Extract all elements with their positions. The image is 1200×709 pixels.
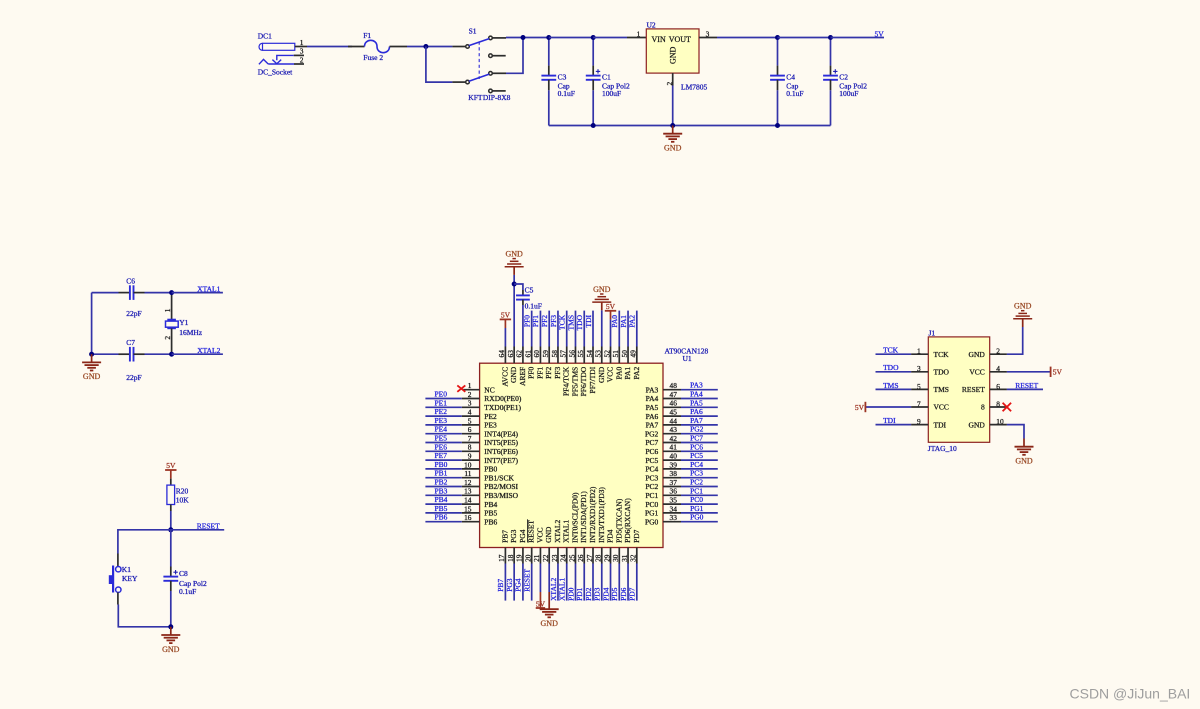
svg-text:5V: 5V (606, 302, 616, 311)
svg-text:TDO: TDO (934, 368, 950, 377)
J1 pin 6 RESET (990, 388, 1007, 390)
svg-text:1: 1 (468, 381, 472, 390)
power port 5V at J1 pin 7 (865, 406, 911, 408)
U1 pin 41 PC6 (663, 450, 681, 452)
U1 pin 18 PG3 (513, 548, 515, 564)
wire R20 to reset node (170, 511, 172, 530)
U1 pin 52 VCC (610, 347, 612, 364)
wire S1 row3 up to rail (492, 72, 506, 74)
switch K1 KEY (116, 567, 121, 572)
node switch output (521, 35, 526, 40)
svg-text:41: 41 (670, 443, 678, 452)
svg-text:XTAL1: XTAL1 (562, 520, 571, 543)
svg-text:6: 6 (468, 425, 472, 434)
wire pin 17 (504, 564, 506, 601)
svg-text:GND: GND (541, 619, 559, 628)
U1 pin 13 PB3/MISO (462, 494, 480, 496)
svg-text:PG4: PG4 (514, 578, 523, 592)
U1 pin 12 PB2/MOSI (462, 486, 480, 488)
svg-text:24: 24 (559, 554, 568, 562)
svg-text:PE2: PE2 (484, 412, 497, 421)
svg-text:INT5(PE5): INT5(PE5) (484, 438, 518, 447)
svg-text:CSDN @JiJun_BAI: CSDN @JiJun_BAI (1070, 685, 1191, 701)
svg-text:PA0: PA0 (614, 367, 623, 380)
wire TCK (876, 353, 912, 355)
svg-text:28: 28 (594, 554, 603, 562)
U1 pin 53 GND (601, 347, 603, 364)
U1 pin 16 PB6 (462, 521, 480, 523)
svg-text:C7: C7 (126, 338, 135, 347)
svg-text:PC2: PC2 (645, 482, 658, 491)
svg-text:8: 8 (996, 399, 1000, 408)
MCU U1 AT90CAN128 body (480, 363, 663, 547)
svg-text:64: 64 (497, 350, 506, 358)
svg-text:57: 57 (559, 350, 568, 358)
capacitor C4 (777, 38, 779, 66)
svg-text:PE1: PE1 (435, 398, 448, 407)
svg-text:PF2: PF2 (544, 367, 553, 379)
wire pin 50 (627, 311, 629, 347)
svg-text:DC_Socket: DC_Socket (258, 68, 293, 77)
U1 pin 51 PA0 (618, 347, 620, 364)
U1 pin 44 PA7 (663, 424, 681, 426)
J1 pin 2 GND (990, 353, 1007, 355)
J1 pin 7 VCC (911, 406, 928, 408)
svg-text:PB4: PB4 (435, 495, 448, 504)
wire pin 60 (539, 311, 541, 347)
svg-text:U2: U2 (647, 20, 656, 29)
svg-text:C2: C2 (839, 73, 848, 82)
svg-text:62: 62 (515, 350, 524, 358)
svg-text:PB5: PB5 (484, 509, 497, 518)
U1 pin 32 PD7 (636, 548, 638, 564)
wire pin 57 (566, 311, 568, 347)
svg-text:42: 42 (670, 434, 678, 443)
U1 pin 49 PA2 (636, 347, 638, 364)
svg-text:XTAL2: XTAL2 (549, 578, 558, 601)
U1 pin 19 PG4 (522, 548, 524, 564)
svg-text:PF0: PF0 (522, 315, 531, 327)
svg-text:INT0/SCL(PD0): INT0/SCL(PD0) (570, 492, 579, 543)
svg-text:9: 9 (468, 452, 472, 461)
svg-text:VCC: VCC (969, 368, 984, 377)
svg-text:PC1: PC1 (645, 491, 658, 500)
svg-text:3: 3 (706, 29, 710, 38)
svg-text:INT6(PE6): INT6(PE6) (484, 447, 518, 456)
svg-text:C4: C4 (786, 73, 795, 82)
svg-text:GND: GND (509, 366, 518, 383)
svg-text:18: 18 (506, 554, 515, 562)
svg-text:3: 3 (468, 399, 472, 408)
svg-text:C8: C8 (179, 569, 188, 578)
svg-text:GND: GND (505, 250, 523, 259)
S1 lever lower (469, 74, 489, 81)
svg-text:19: 19 (515, 554, 524, 562)
wire rail C4-C2 (778, 37, 831, 39)
svg-text:AREF: AREF (518, 367, 527, 386)
svg-text:PD6: PD6 (619, 587, 628, 601)
svg-text:PF3: PF3 (549, 315, 558, 327)
svg-text:PG3: PG3 (509, 529, 518, 543)
svg-text:PC3: PC3 (690, 469, 703, 478)
svg-text:21: 21 (532, 554, 541, 562)
ground reset (170, 627, 172, 635)
svg-text:XTAL1: XTAL1 (558, 578, 567, 601)
svg-text:5V: 5V (166, 461, 176, 470)
svg-text:PC7: PC7 (690, 434, 703, 443)
svg-text:PF0: PF0 (527, 367, 536, 379)
U1 pin 40 PC5 (663, 459, 681, 461)
S1 throw contact row3 (489, 72, 493, 76)
svg-text:35: 35 (670, 496, 678, 505)
svg-text:50: 50 (620, 350, 629, 358)
svg-text:PB7: PB7 (496, 579, 505, 592)
wire pin 23 (557, 564, 559, 601)
svg-text:PF7/TDI: PF7/TDI (588, 366, 597, 393)
svg-text:100uF: 100uF (602, 89, 621, 98)
capacitor C8 polarized (170, 530, 172, 567)
svg-text:PC6: PC6 (645, 447, 658, 456)
U1 pin 14 PB4 (462, 503, 480, 505)
svg-text:PB1/SCK: PB1/SCK (484, 473, 514, 482)
svg-text:PG2: PG2 (690, 425, 704, 434)
svg-text:10K: 10K (176, 496, 190, 505)
DC1 pin 1 (295, 46, 307, 48)
svg-text:54: 54 (585, 350, 594, 358)
node reset (168, 527, 173, 532)
svg-text:RESET: RESET (522, 568, 531, 591)
svg-text:TDO: TDO (883, 363, 899, 372)
node at switch input (423, 44, 428, 49)
capacitor C7 (92, 353, 119, 355)
left rail wire (91, 293, 93, 355)
wire pin 58 (557, 311, 559, 347)
svg-text:NC: NC (484, 385, 494, 394)
svg-text:PC5: PC5 (690, 451, 703, 460)
wire pin 20 (531, 564, 533, 601)
power port 5V at U1 pin 21 VCC bottom (539, 564, 541, 593)
wire key bottom (117, 592, 119, 604)
svg-text:XTAL2: XTAL2 (197, 346, 220, 355)
svg-text:25: 25 (567, 554, 576, 562)
svg-text:5V: 5V (855, 403, 865, 412)
wire J1 pin6 RESET (1007, 388, 1043, 390)
J1 pin 5 TMS (911, 388, 928, 390)
svg-text:PB6: PB6 (484, 517, 497, 526)
svg-text:GND: GND (969, 350, 986, 359)
svg-text:RESET: RESET (1015, 381, 1038, 390)
svg-text:27: 27 (585, 554, 594, 562)
svg-text:49: 49 (629, 350, 638, 358)
svg-text:PE4: PE4 (435, 425, 448, 434)
U1 pin 59 PF2 (548, 347, 550, 364)
svg-text:PE3: PE3 (484, 421, 497, 430)
svg-text:GND: GND (1014, 302, 1032, 311)
wire pin 18 (513, 564, 515, 601)
svg-text:XTAL1: XTAL1 (197, 284, 220, 293)
wire rail U2 to C4 (717, 37, 778, 39)
svg-text:PC5: PC5 (645, 456, 658, 465)
svg-text:PB2: PB2 (435, 478, 448, 487)
DC1 pin 3 arrow (272, 60, 276, 64)
U1 pin 47 PA4 (663, 398, 681, 400)
svg-text:TCK: TCK (558, 314, 567, 330)
wire pin 31 (627, 564, 629, 601)
svg-text:TMS: TMS (883, 381, 898, 390)
svg-text:TCK: TCK (934, 350, 950, 359)
U1 pin 54 PF7/TDI (592, 347, 594, 364)
svg-text:PF4/TCK: PF4/TCK (562, 366, 571, 396)
svg-text:DC1: DC1 (258, 31, 272, 40)
svg-text:PA6: PA6 (646, 412, 659, 421)
svg-text:TDO: TDO (575, 314, 584, 330)
U1 pin 33 PG0 (663, 521, 681, 523)
svg-text:8: 8 (981, 403, 985, 412)
J1 pin 3 TDO (911, 371, 928, 373)
svg-text:PC0: PC0 (645, 500, 658, 509)
svg-text:5V: 5V (536, 600, 546, 609)
wire junction down to lower switch pole (426, 47, 453, 83)
svg-text:PA2: PA2 (632, 367, 641, 380)
svg-text:R20: R20 (176, 486, 189, 495)
svg-text:U1: U1 (683, 354, 692, 363)
power port 5V at U1 pin 52 VCC (610, 319, 612, 346)
DC1 pin 3 (294, 54, 304, 56)
DC1 switch zigzag (259, 59, 268, 64)
svg-text:17: 17 (497, 554, 506, 562)
U1 pin 4 PE2 (462, 415, 480, 417)
ground crystal (91, 354, 93, 362)
U1 pin 57 PF4/TCK (566, 347, 568, 364)
wire TDO (876, 371, 912, 373)
U1 pin 3 TXD0(PE1) (462, 406, 480, 408)
svg-text:1: 1 (300, 38, 304, 47)
svg-text:XTAL2: XTAL2 (553, 520, 562, 543)
svg-text:10: 10 (996, 417, 1004, 426)
U1 pin 9 INT7(PE7) (462, 459, 480, 461)
capacitor C5 on AREF (514, 284, 523, 290)
svg-text:22pF: 22pF (126, 373, 141, 382)
S1 dashed link (478, 42, 480, 80)
svg-text:PC3: PC3 (645, 473, 658, 482)
wire pin 27 (592, 564, 594, 601)
wire TMS (876, 388, 912, 390)
svg-text:PE7: PE7 (435, 451, 448, 460)
fuse F1 (365, 40, 390, 52)
svg-text:7: 7 (468, 434, 472, 443)
svg-text:29: 29 (602, 554, 611, 562)
wire TDI (876, 424, 912, 426)
U1 pin 11 PB1/SCK (462, 477, 480, 479)
svg-text:PD3: PD3 (593, 587, 602, 601)
power port 5V reset (165, 469, 176, 471)
svg-text:PE5: PE5 (435, 434, 448, 443)
svg-text:2: 2 (300, 55, 304, 64)
capacitor C6 (92, 292, 119, 294)
svg-text:TMS: TMS (934, 385, 949, 394)
svg-text:INT1/SDA(PD1): INT1/SDA(PD1) (579, 491, 588, 543)
U1 pin 30 PD5(TXCAN) (618, 548, 620, 564)
svg-text:PA4: PA4 (690, 390, 703, 399)
U1 pin 46 PA5 (663, 406, 681, 408)
svg-text:PC4: PC4 (645, 465, 658, 474)
svg-text:C5: C5 (525, 286, 534, 295)
crystal Y1 (171, 293, 173, 320)
svg-text:43: 43 (670, 425, 678, 434)
svg-text:PD7: PD7 (632, 529, 641, 543)
U1 pin 7 INT5(PE5) (462, 442, 480, 444)
svg-text:F1: F1 (363, 31, 371, 40)
svg-text:TMS: TMS (566, 315, 575, 330)
svg-text:15: 15 (464, 504, 472, 513)
svg-text:J1: J1 (929, 328, 936, 337)
node xtal2 (169, 352, 174, 357)
U1 pin 64 AVCC (504, 347, 506, 364)
wire U1 pin 63 to gnd (513, 284, 515, 347)
svg-text:PA3: PA3 (690, 381, 703, 390)
svg-text:PD0: PD0 (566, 587, 575, 601)
U1 pin 61 PF0 (531, 347, 533, 364)
U1 pin 29 PD4 (610, 548, 612, 564)
svg-text:51: 51 (611, 350, 620, 358)
svg-text:GND: GND (162, 645, 180, 654)
svg-text:INT7(PE7): INT7(PE7) (484, 456, 518, 465)
wire rail C1 to U2 pin1 (593, 37, 627, 39)
svg-text:PA4: PA4 (646, 394, 659, 403)
node C1 top (591, 35, 596, 40)
U1 pin 28 INT3/TXD1(PD3) (601, 548, 603, 564)
capacitor C1 polarized (592, 38, 594, 66)
U1 pin 34 PG1 (663, 512, 681, 514)
U2 pin 3 (699, 37, 717, 39)
svg-text:PD7: PD7 (628, 587, 637, 601)
wire reset label (171, 529, 224, 531)
svg-text:TCK: TCK (883, 346, 899, 355)
U1 pin 25 INT0/SCL(PD0) (574, 548, 576, 564)
svg-text:0.1uF: 0.1uF (525, 301, 542, 310)
S1 unused contact row4 (489, 89, 493, 93)
svg-text:PE2: PE2 (435, 407, 448, 416)
wire pin 30 (618, 564, 620, 601)
svg-text:58: 58 (550, 350, 559, 358)
wire J1 pin10 to gnd (1007, 425, 1024, 439)
S1 throw contact row1 (489, 36, 493, 40)
connector DC1 DC_Socket (259, 43, 263, 50)
svg-text:5: 5 (917, 382, 921, 391)
wire pin 55 (583, 311, 585, 347)
svg-text:16MHz: 16MHz (179, 328, 203, 337)
svg-text:AVCC: AVCC (500, 367, 509, 387)
svg-text:C6: C6 (126, 277, 135, 286)
svg-text:GND: GND (668, 46, 677, 64)
S1 pole contact lower (466, 80, 470, 84)
capacitor C3 (548, 38, 550, 66)
ground U1 pin 22 (548, 564, 550, 593)
U1 pin 21 VCC (539, 548, 541, 564)
U1 pin 15 PB5 (462, 512, 480, 514)
svg-text:PA3: PA3 (646, 385, 659, 394)
svg-text:PB4: PB4 (484, 500, 497, 509)
svg-text:PC1: PC1 (690, 486, 703, 495)
svg-text:PD5(TXCAN): PD5(TXCAN) (614, 498, 623, 543)
svg-text:GND: GND (1015, 457, 1033, 466)
svg-text:PA5: PA5 (646, 403, 659, 412)
svg-text:INT2/RXD1(PD2): INT2/RXD1(PD2) (588, 486, 597, 543)
svg-text:GND: GND (83, 372, 101, 381)
svg-text:61: 61 (523, 350, 532, 358)
wire xtal1 (172, 292, 223, 294)
svg-text:PF1: PF1 (535, 367, 544, 379)
svg-text:PE0: PE0 (435, 390, 448, 399)
U1 pin 5 PE3 (462, 424, 480, 426)
node C3 top (546, 35, 551, 40)
ground U1 pin53 (601, 310, 603, 346)
svg-text:DIP-8X8: DIP-8X8 (483, 93, 511, 102)
svg-text:GND: GND (544, 526, 553, 543)
svg-text:5V: 5V (501, 311, 511, 320)
svg-text:30: 30 (611, 554, 620, 562)
S1 lever upper (469, 39, 489, 46)
svg-text:PB3: PB3 (435, 486, 448, 495)
svg-text:PG1: PG1 (690, 504, 704, 513)
U1 pin 20 RESET overline (527, 519, 529, 542)
svg-text:60: 60 (532, 350, 541, 358)
regulator U2 LM7805 body (646, 29, 699, 73)
wire pin 29 (610, 564, 612, 601)
U1 pin 27 INT2/RXD1(PD2) (592, 548, 594, 564)
node gnd crystal (89, 352, 94, 357)
U1 pin 62 AREF (522, 347, 524, 364)
svg-text:PE3: PE3 (435, 416, 448, 425)
wire U2 pin2 to gnd rail (672, 86, 674, 126)
ground J1 pin2 (1013, 318, 1032, 320)
svg-text:PG2: PG2 (645, 429, 659, 438)
svg-text:32: 32 (629, 554, 638, 562)
node U2 gnd bottom (670, 123, 675, 128)
wire DC1 to F1 (307, 46, 352, 48)
svg-text:S1: S1 (469, 27, 477, 36)
J1 pin 4 VCC (990, 371, 1007, 373)
svg-text:PD6(RXCAN): PD6(RXCAN) (623, 498, 632, 543)
U1 pin 6 INT4(PE4) (462, 433, 480, 435)
DC1 pin 2 (294, 63, 304, 65)
svg-text:PC0: PC0 (690, 495, 703, 504)
J1 pin 1 TCK (911, 353, 928, 355)
svg-text:LM7805: LM7805 (681, 83, 708, 92)
node xtal1 (169, 290, 174, 295)
svg-text:RXD0(PE0): RXD0(PE0) (484, 394, 522, 403)
wire rail C3-C1 (549, 37, 593, 39)
svg-text:PF1: PF1 (531, 315, 540, 327)
svg-text:K1: K1 (122, 565, 131, 574)
wire pin 59 (548, 311, 550, 347)
svg-text:2: 2 (996, 347, 1000, 356)
svg-text:36: 36 (670, 487, 678, 496)
U1 pin 38 PC3 (663, 477, 681, 479)
svg-text:16: 16 (464, 513, 472, 522)
S1 unused contact row2 (489, 54, 493, 58)
svg-text:PB5: PB5 (435, 504, 448, 513)
svg-text:PG4: PG4 (518, 529, 527, 543)
svg-text:22: 22 (541, 554, 550, 562)
svg-text:52: 52 (602, 350, 611, 358)
wire pin 49 (636, 311, 638, 347)
svg-text:56: 56 (567, 350, 576, 358)
wire xtal2 (172, 353, 223, 355)
svg-text:GND: GND (593, 285, 611, 294)
ground J1 pin10 (1023, 439, 1025, 447)
svg-text:TDI: TDI (883, 416, 896, 425)
